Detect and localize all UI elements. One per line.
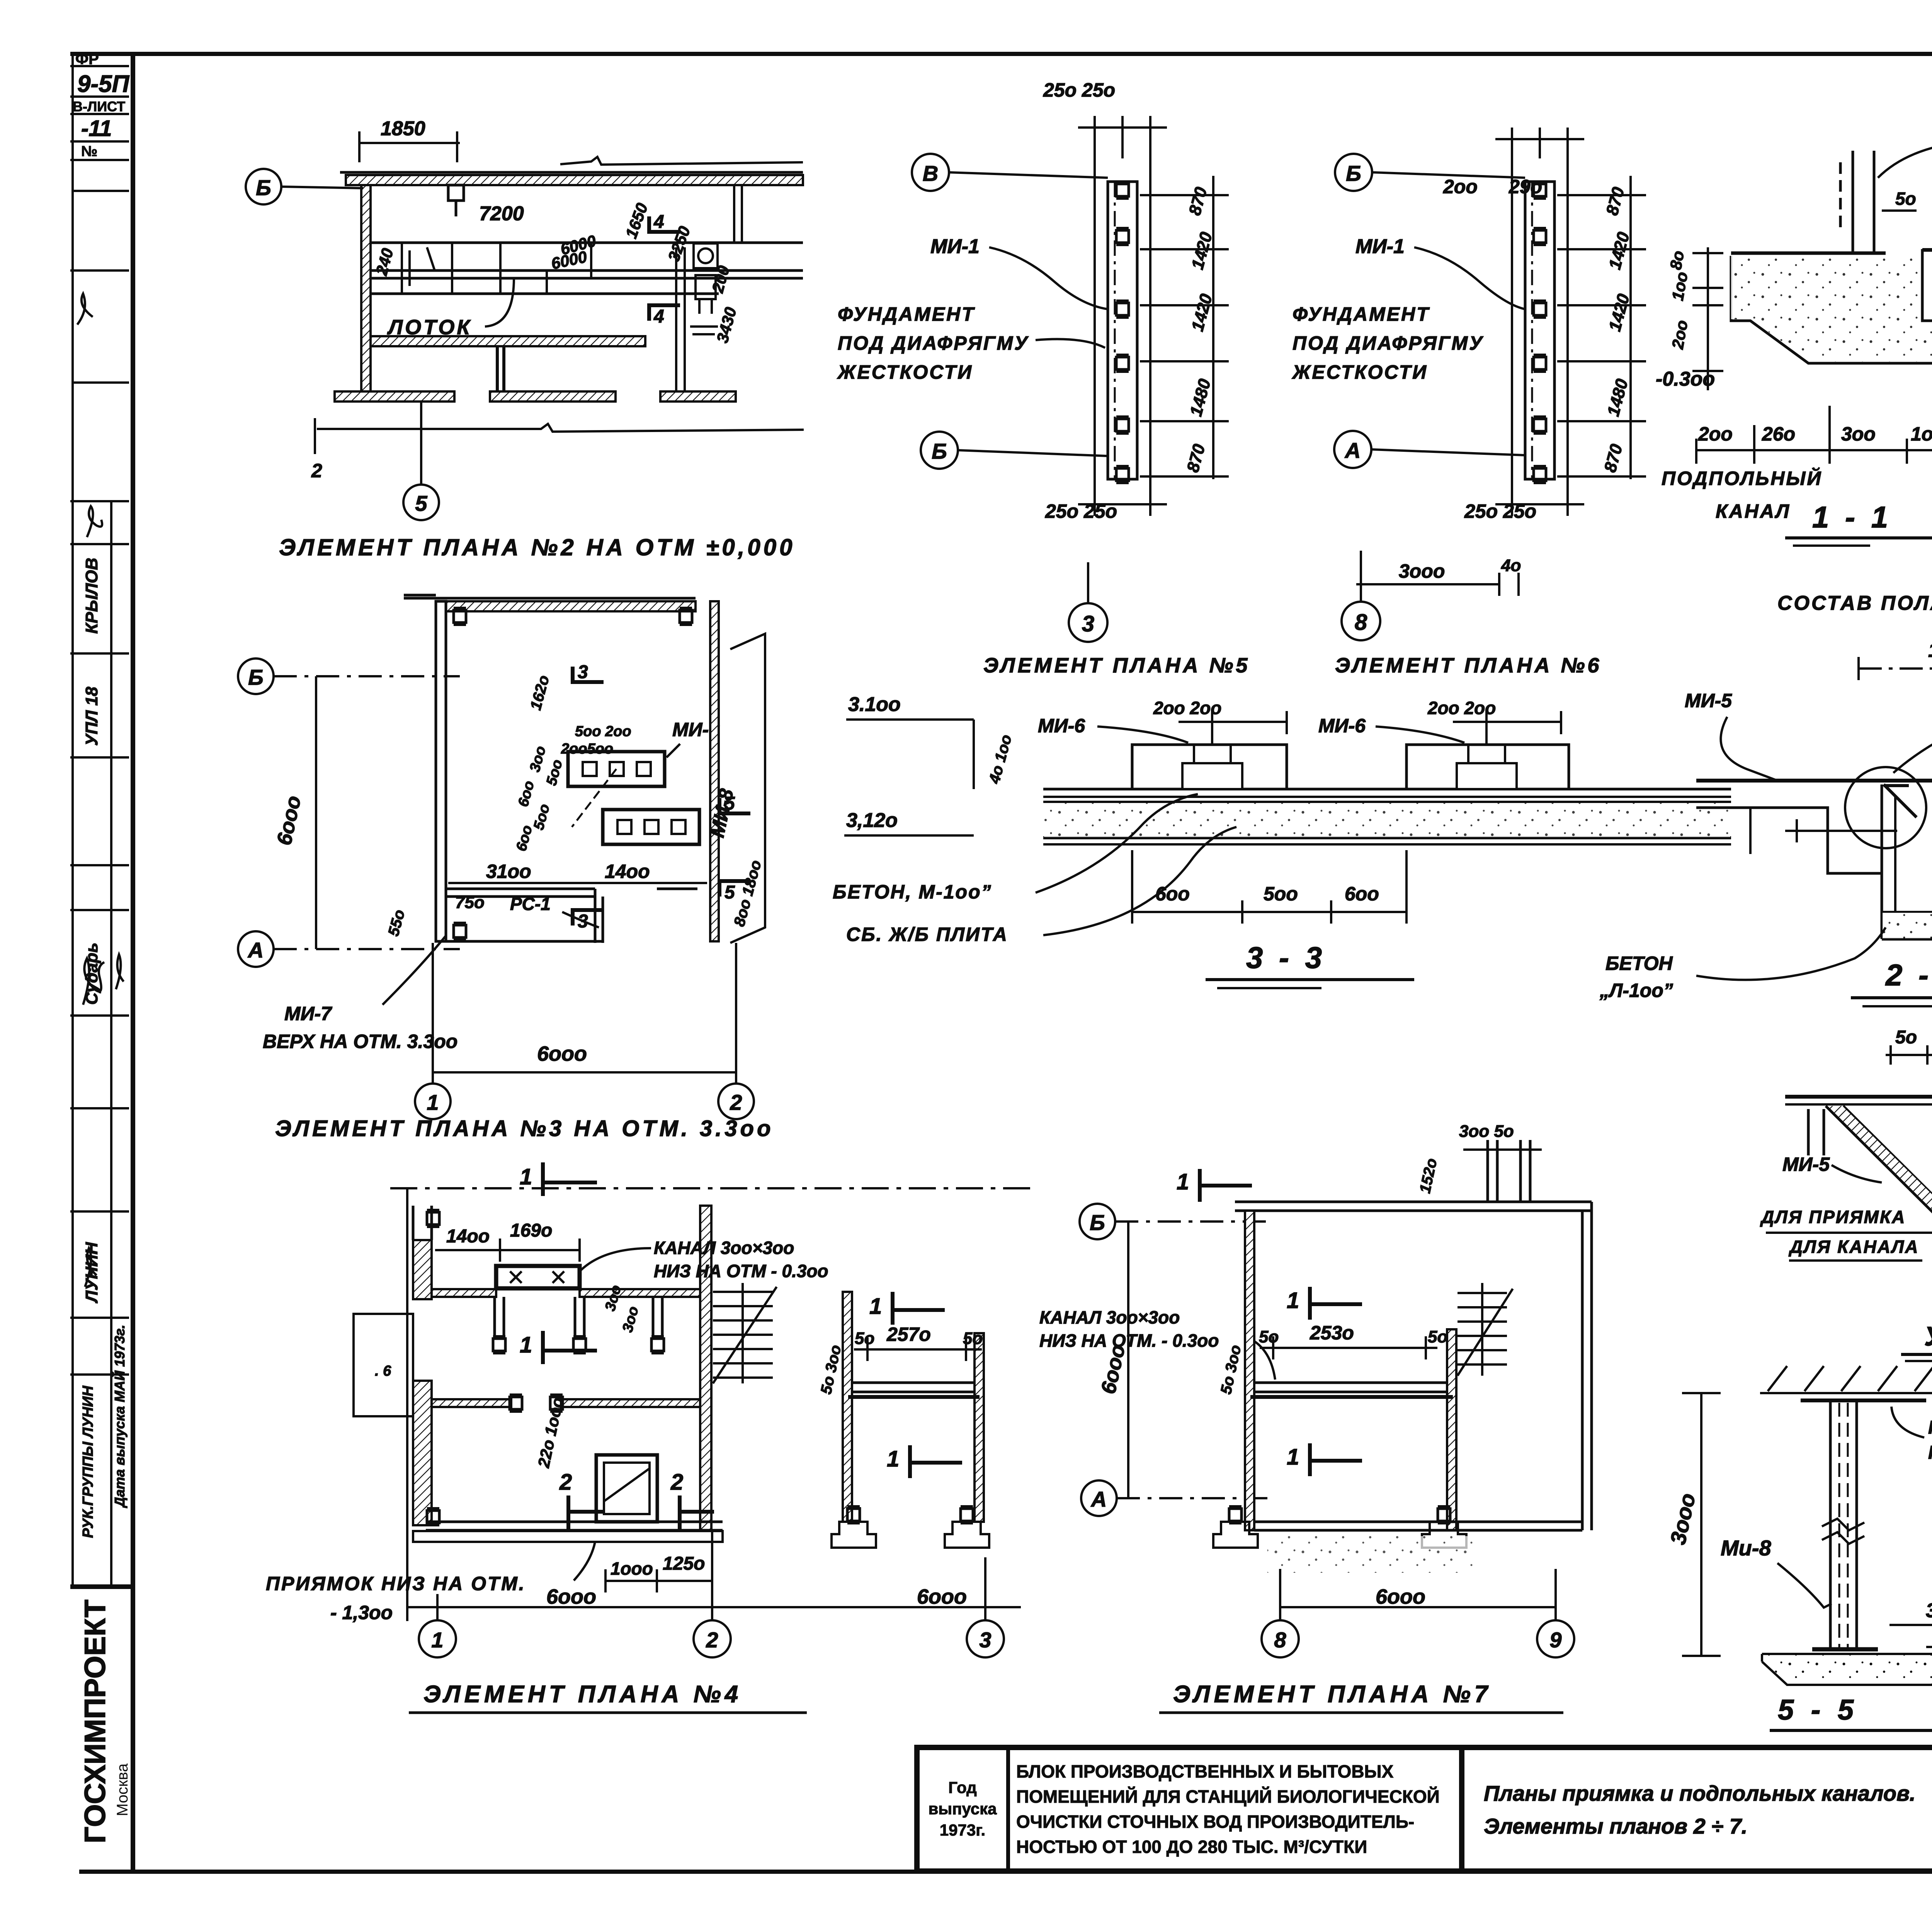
svg-text:ЛУНИН: ЛУНИН (82, 1242, 101, 1303)
axis circle B strip1 (921, 432, 958, 469)
svg-text:1ооо: 1ооо (1928, 639, 1932, 662)
svg-text:5о: 5о (1895, 189, 1916, 209)
axis circles B A plan N7 (1080, 1204, 1267, 1516)
section 3 flags plan N3 (573, 667, 750, 926)
svg-text:Б: Б (248, 665, 264, 689)
bottom border (79, 1870, 1932, 1874)
svg-text:6ооо: 6ооо (537, 1042, 587, 1065)
corner angles MI-5 in 2-2 (1884, 784, 1932, 817)
svg-text:ГОСХИМПРОЕКТ: ГОСХИМПРОЕКТ (79, 1599, 112, 1843)
svg-text:5о: 5о (963, 1329, 983, 1348)
svg-text:1: 1 (869, 1294, 882, 1319)
svg-text:1ооо: 1ооо (611, 1558, 653, 1579)
plan N3 bottom walls (436, 889, 697, 943)
svg-text:К плитам: К плитам (1928, 1443, 1932, 1463)
svg-text:Б: Б (1346, 161, 1361, 185)
I-beams on pads (1182, 745, 1517, 763)
svg-text:МИ-6: МИ-6 (1038, 715, 1085, 737)
svg-text:1оо: 1оо (1911, 423, 1932, 445)
signature scribbles in stamp (77, 294, 124, 1287)
ceiling hatch 5-5 (1760, 1366, 1932, 1393)
section 1-1 bottom dims (1696, 406, 1932, 464)
title element plan N2 (279, 534, 795, 560)
plan N2 bathroom fixtures (690, 243, 718, 334)
3000 dim 5-5 (1682, 1393, 1721, 1656)
axis circle V strip1 (912, 154, 949, 191)
svg-text:3.3оо: 3.3оо (1926, 1599, 1932, 1622)
svg-text:ПОМЕЩЕНИЙ ДЛЯ СТАНЦИЙ БИОЛОГИЧ: ПОМЕЩЕНИЙ ДЛЯ СТАНЦИЙ БИОЛОГИЧЕСКОЙ (1016, 1786, 1440, 1807)
svg-text:1: 1 (1287, 1288, 1299, 1313)
plan N7 stairs (1458, 1283, 1513, 1376)
svg-text:КРЫЛОВ: КРЫЛОВ (82, 558, 101, 634)
svg-text:3,12о: 3,12о (846, 809, 898, 832)
svg-text:2оо: 2оо (1443, 176, 1478, 197)
plan N4 section 1 flag top (543, 1162, 597, 1196)
axis circle 5 (plan N2) (403, 403, 439, 520)
detail circle 2-2 (1845, 767, 1926, 848)
svg-text:2оо 2оо: 2оо 2оо (1427, 698, 1496, 718)
svg-text:6ооо: 6ооо (1376, 1585, 1425, 1608)
plan N4 left wall (413, 1206, 432, 1525)
axis circles B A plan N3 (238, 658, 460, 967)
plan N7 section flags (1200, 1169, 1362, 1476)
svg-text:Москва: Москва (114, 1763, 131, 1816)
section 1-1 floor profile (1731, 250, 1932, 363)
svg-text:4: 4 (653, 212, 664, 232)
svg-text:169о: 169о (510, 1220, 552, 1241)
svg-text:1 - 1: 1 - 1 (1812, 500, 1892, 534)
svg-text:1: 1 (887, 1446, 899, 1472)
svg-text:КАНАЛ: КАНАЛ (1716, 500, 1791, 522)
svg-text:4о: 4о (1501, 556, 1521, 575)
svg-text:2оо 2оо: 2оо 2оо (1153, 698, 1221, 718)
svg-text:РУК.ГРУППЫ ЛУНИН: РУК.ГРУППЫ ЛУНИН (80, 1385, 96, 1538)
section 2-2 drawing (1696, 781, 1932, 939)
foundation strip 1 (1078, 116, 1167, 516)
concrete patch under plan N7 (1267, 1536, 1476, 1573)
plan N7 dims 50 2530 50 (1260, 1336, 1437, 1359)
svg-text:1850: 1850 (381, 117, 425, 140)
svg-text:29о: 29о (1509, 176, 1542, 197)
svg-text:14оо: 14оо (446, 1226, 490, 1247)
plan N4 axis2 wall (700, 1206, 711, 1530)
svg-text:СОСТАВ ПОЛА СМ. АР-7: СОСТАВ ПОЛА СМ. АР-7 (1777, 592, 1932, 614)
svg-text:5о: 5о (855, 1329, 874, 1348)
plan N4 priyamok left box (354, 1314, 413, 1416)
svg-text:ЭЛЕМЕНТ ПЛАНА №3 НА ОТМ. 3.: ЭЛЕМЕНТ ПЛАНА №3 НА ОТМ. 3.3оо (275, 1116, 774, 1141)
svg-text:5о: 5о (1428, 1327, 1447, 1346)
axis circle B strip2 (1335, 154, 1372, 191)
svg-text:МИ-7: МИ-7 (284, 1003, 332, 1024)
svg-text:9: 9 (1549, 1628, 1561, 1652)
svg-text:257о: 257о (886, 1324, 931, 1345)
svg-text:БЕТОН: БЕТОН (1605, 953, 1673, 974)
svg-text:выпуска: выпуска (928, 1800, 997, 1818)
right dim chain strip 1 (1140, 176, 1229, 479)
svg-text:Сударь: Сударь (82, 943, 101, 1005)
svg-text:8о: 8о (1667, 249, 1688, 271)
svg-text:26о: 26о (1762, 423, 1795, 445)
svg-text:2: 2 (559, 1470, 572, 1495)
svg-text:ЖЕСТКОСТИ: ЖЕСТКОСТИ (837, 361, 973, 383)
svg-text:3 - 3: 3 - 3 (1246, 941, 1326, 975)
plan N7 bottom (1254, 1522, 1582, 1530)
axis circle A strip2 (1334, 431, 1371, 468)
svg-text:„Л-1оо”: „Л-1оо” (1599, 980, 1673, 1001)
svg-text:ПОД ДИАФРЯГМУ: ПОД ДИАФРЯГМУ (838, 332, 1029, 354)
svg-text:ФР: ФР (75, 51, 99, 68)
svg-text:Б: Б (256, 175, 271, 200)
left main border (131, 53, 135, 1871)
svg-text:ПОДПОЛЬНЫЙ: ПОДПОЛЬНЫЙ (1662, 467, 1822, 489)
right dim chain strip 2 (1557, 176, 1646, 479)
svg-text:25о 25о: 25о 25о (1045, 500, 1117, 522)
svg-text:Ми-8: Ми-8 (1721, 1536, 1772, 1560)
svg-text:ДЛЯ КАНАЛА: ДЛЯ КАНАЛА (1788, 1237, 1919, 1257)
svg-text:2: 2 (730, 1090, 742, 1114)
plan N2 bottom walls (335, 346, 736, 402)
plan N2 inner ticks row (402, 185, 742, 391)
svg-text:1: 1 (427, 1090, 439, 1114)
svg-text:ПОД ДИАФРЯГМУ: ПОД ДИАФРЯГМУ (1293, 332, 1484, 354)
svg-text:МИ-1: МИ-1 (930, 235, 980, 258)
plan N4 mid walls (432, 1399, 702, 1407)
svg-text:5 - 5: 5 - 5 (1778, 1694, 1858, 1726)
svg-text:БЕТОН, М-1оо”: БЕТОН, М-1оо” (833, 881, 992, 903)
svg-text:В-ЛИСТ: В-ЛИСТ (73, 99, 125, 114)
svg-text:НИЗ НА ОТМ. - 0.3оо: НИЗ НА ОТМ. - 0.3оо (1039, 1330, 1219, 1351)
svg-text:-11: -11 (81, 116, 112, 141)
svg-text:25о 25о: 25о 25о (1043, 79, 1115, 101)
plan N7 walls (1235, 1202, 1592, 1530)
svg-text:ЭЛЕМЕНТ ПЛАНА №4: ЭЛЕМЕНТ ПЛАНА №4 (423, 1681, 742, 1708)
svg-text:1: 1 (1287, 1444, 1299, 1470)
svg-text:ВЕРХ НА ОТМ. 3.3оо: ВЕРХ НА ОТМ. 3.3оо (263, 1031, 457, 1052)
column 5-5 (1822, 1400, 1864, 1651)
plan N2 top wall (340, 172, 803, 185)
svg-text:6оо: 6оо (1155, 883, 1190, 905)
svg-text:ОЧИСТКИ СТОЧНЫХ ВОД ПРОИЗВОДИТ: ОЧИСТКИ СТОЧНЫХ ВОД ПРОИЗВОДИТЕЛЬ- (1016, 1812, 1414, 1832)
svg-text:8: 8 (1274, 1628, 1286, 1652)
text fundament strip1 (837, 303, 1029, 383)
svg-text:2: 2 (311, 460, 322, 481)
plan N4 room wall stubs upper (495, 1297, 662, 1336)
text fundament strip2 (1291, 303, 1484, 383)
svg-text:8: 8 (1355, 610, 1367, 635)
svg-text:3ооо: 3ооо (1399, 560, 1445, 582)
svg-text:4: 4 (653, 306, 664, 327)
plan N2 lotok channel walls (371, 243, 803, 294)
svg-text:6оо: 6оо (1345, 883, 1379, 905)
svg-text:УПЛ 18: УПЛ 18 (82, 687, 101, 746)
svg-text:ЭЛЕМЕНТ ПЛАНА №5: ЭЛЕМЕНТ ПЛАНА №5 (983, 654, 1250, 677)
pristrelit text (1928, 1417, 1932, 1488)
6000 vertical dim plan N3 (315, 676, 317, 949)
plan N4 kanal box (496, 1266, 580, 1288)
GOSHIMPROEKT bottom-left (79, 1599, 131, 1843)
svg-text:ЛОТОК: ЛОТОК (387, 316, 472, 339)
uzel A diagonal corner with hatch (1826, 1106, 1932, 1215)
plan N4 dims top (435, 1239, 580, 1262)
6000 bottom dim plan N3 (433, 1061, 736, 1084)
svg-text:ФУНДАМЕНТ: ФУНДАМЕНТ (1293, 303, 1430, 325)
bottom dims 600 500 600 (1132, 850, 1406, 924)
svg-text:Дата выпуска МАЙ 1973г.: Дата выпуска МАЙ 1973г. (111, 1325, 128, 1508)
svg-text:3оо 5о: 3оо 5о (1459, 1122, 1514, 1141)
svg-text:БЛОК ПРОИЗВОДСТВЕННЫХ И БЫТОВЫ: БЛОК ПРОИЗВОДСТВЕННЫХ И БЫТОВЫХ (1016, 1761, 1394, 1781)
svg-text:9-5П: 9-5П (77, 71, 130, 97)
svg-text:- 1,3оо: - 1,3оо (330, 1602, 393, 1623)
foundation strip 2 (1495, 128, 1584, 516)
axis circle B (plan N2) (246, 169, 363, 204)
svg-text:ЭЛЕМЕНТ ПЛАНА №2 НА ОТМ ±0,00: ЭЛЕМЕНТ ПЛАНА №2 НА ОТМ ±0,000 (279, 534, 795, 560)
plan N2 columns on top wall (448, 185, 464, 216)
svg-text:25о 25о: 25о 25о (1464, 500, 1536, 522)
svg-text:7200: 7200 (479, 202, 524, 225)
svg-text:3оо: 3оо (1841, 423, 1876, 445)
right bay section flags (893, 1292, 962, 1478)
plan N4 bottom wall (413, 1522, 723, 1542)
plan N4 window (596, 1455, 657, 1522)
plan N4 220 1000 dims (534, 1396, 567, 1470)
svg-text:МИ-6: МИ-6 (1318, 715, 1366, 737)
svg-text:СБ. Ж/Б ПЛИТА: СБ. Ж/Б ПЛИТА (846, 924, 1008, 945)
plan N4 section 1 flag inner (543, 1331, 597, 1364)
plan N4 stairs (713, 1283, 777, 1383)
svg-text:2оо5оо: 2оо5оо (561, 741, 613, 757)
svg-text:2: 2 (706, 1628, 718, 1652)
svg-text:-0.3оо: -0.3оо (1656, 368, 1715, 390)
svg-text:5: 5 (415, 491, 427, 516)
svg-text:А: А (247, 938, 264, 962)
plan N3 dims 3100 1400 (448, 882, 707, 884)
svg-text:Б: Б (932, 439, 947, 463)
svg-text:№: № (81, 143, 97, 160)
plan N3 left wall (436, 601, 446, 941)
svg-text:ДЛЯ ПРИЯМКА: ДЛЯ ПРИЯМКА (1760, 1207, 1906, 1227)
svg-text:ЭЛЕМЕНТ ПЛАНА №6: ЭЛЕМЕНТ ПЛАНА №6 (1335, 654, 1602, 677)
section 1-1 left dims (1692, 247, 1723, 390)
40 100 rotated dims (986, 733, 1015, 786)
plan N3 MI-6 embed plates (568, 752, 699, 844)
right bay footings (832, 1507, 989, 1548)
section 3-3 floor with pads (1043, 745, 1731, 844)
svg-text:Планы приямка и подпольных кан: Планы приямка и подпольных каналов. (1484, 1781, 1915, 1805)
svg-text:РС-1: РС-1 (510, 894, 551, 914)
svg-text:1: 1 (1177, 1169, 1189, 1194)
svg-text:А: А (1344, 438, 1361, 463)
svg-text:НИЗ НА ОТМ - 0.3оо: НИЗ НА ОТМ - 0.3оо (654, 1261, 828, 1281)
svg-text:125о: 125о (663, 1553, 705, 1574)
axis circles 1 2 3 (419, 1532, 1004, 1657)
svg-text:3: 3 (578, 662, 588, 682)
svg-text:УЗЕЛ „А”: УЗЕЛ „А” (1924, 1321, 1932, 1351)
axis circles 8 9 plan N7 (1262, 1569, 1574, 1657)
floor slab 5-5 (1812, 1647, 1878, 1652)
plan N3 dim chains small (513, 674, 631, 853)
plan N4 right bay walls (843, 1292, 984, 1522)
1000 dim (1859, 657, 1932, 680)
axis circles 1 2 plan N3 (415, 943, 754, 1119)
svg-text:КАНАЛ 3оо×3оо: КАНАЛ 3оо×3оо (654, 1238, 794, 1258)
svg-text:КАНАЛ 3оо×3оо: КАНАЛ 3оо×3оо (1039, 1307, 1180, 1327)
svg-text:1: 1 (431, 1628, 443, 1652)
plan N4 section 2 flags (568, 1495, 714, 1530)
svg-text:253о: 253о (1310, 1322, 1354, 1344)
200 200 dims above pads (1179, 711, 1561, 746)
MI-8 marker plan N3 (right edge) (710, 601, 765, 943)
left dims 2-2 (1750, 808, 1897, 854)
svg-text:2 - 2: 2 - 2 (1885, 958, 1932, 992)
svg-text:В: В (923, 161, 938, 185)
plan N2 break line right (317, 424, 804, 432)
svg-text:2: 2 (670, 1470, 683, 1495)
svg-text:МИ-5: МИ-5 (1685, 690, 1732, 711)
svg-text:5оо 2оо: 5оо 2оо (575, 723, 631, 740)
section 1-1 concrete dots (1731, 256, 1932, 362)
plan N2 misc rotated dims (372, 201, 740, 345)
plan N4 top inner wall (432, 1289, 702, 1297)
svg-text:А: А (1090, 1487, 1107, 1511)
svg-text:31оо: 31оо (486, 861, 531, 882)
svg-text:ПРИЯМОК НИЗ НА ОТМ.: ПРИЯМОК НИЗ НА ОТМ. (266, 1573, 526, 1594)
svg-text:НОСТЬЮ ОТ 100 ДО 280 ТЫС. М³: НОСТЬЮ ОТ 100 ДО 280 ТЫС. М³/СУТКИ (1016, 1837, 1367, 1857)
long stamp column (70, 191, 129, 1587)
3000 40 dims above (1356, 573, 1519, 596)
svg-text:5: 5 (724, 882, 735, 903)
top border (70, 52, 1932, 56)
svg-text:5о: 5о (1895, 1027, 1917, 1048)
svg-text:МИ-5: МИ-5 (1782, 1153, 1830, 1175)
svg-text:Пристрелить: Пристрелить (1928, 1417, 1932, 1438)
plan N2 left wall (361, 185, 371, 391)
dimension 1850 (359, 131, 460, 162)
axis 2 mark bottom-left (314, 418, 316, 454)
svg-text:5о: 5о (1259, 1327, 1279, 1346)
plan N4 1000 1250 dims (605, 1569, 712, 1592)
plan N3 column marks (454, 608, 692, 940)
plan N3 top wall (404, 595, 696, 611)
svg-text:1973г.: 1973г. (940, 1821, 985, 1839)
section 1-1 brick wall (1840, 151, 1874, 252)
plan N4 axis lines (390, 1188, 1036, 1621)
svg-text:ЭЛЕМЕНТ ПЛАНА №7: ЭЛЕМЕНТ ПЛАНА №7 (1173, 1681, 1492, 1708)
plan N2 mid wall band (371, 336, 645, 346)
uzel A slab (1785, 1097, 1932, 1155)
section 4 flags (plan N2) (649, 216, 680, 321)
svg-text:3: 3 (1082, 611, 1094, 636)
svg-text:1: 1 (520, 1164, 532, 1189)
svg-text:Год: Год (948, 1778, 976, 1797)
svg-text:1: 1 (520, 1332, 532, 1358)
svg-text:Б: Б (1090, 1210, 1105, 1235)
svg-text:МИ-1: МИ-1 (1355, 235, 1405, 258)
svg-text:5оо: 5оо (1264, 883, 1298, 905)
plan N7 top channel stub (1488, 1140, 1530, 1202)
svg-text:2оо: 2оо (1698, 423, 1733, 445)
svg-text:6ооо: 6ооо (917, 1585, 967, 1608)
svg-text:ЖЕСТКОСТИ: ЖЕСТКОСТИ (1291, 361, 1428, 383)
svg-text:Элементы планов 2 ÷ 7.: Элементы планов 2 ÷ 7. (1484, 1814, 1747, 1838)
svg-text:75о: 75о (455, 893, 485, 912)
svg-text:. 6: . 6 (375, 1363, 391, 1379)
svg-text:14оо: 14оо (605, 861, 650, 882)
svg-text:3: 3 (979, 1628, 991, 1652)
titles N5 N6 (1069, 551, 1380, 642)
svg-text:ФУНДАМЕНТ: ФУНДАМЕНТ (838, 303, 975, 325)
svg-text:3.1оо: 3.1оо (848, 693, 901, 716)
svg-text:6ооо: 6ооо (546, 1585, 596, 1608)
